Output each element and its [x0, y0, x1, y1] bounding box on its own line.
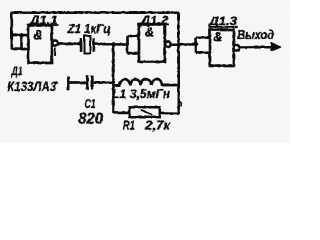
gate D1.2 (NAND element)	[139, 24, 171, 62]
wire: crystal Z1 to D1.2 input	[95, 42, 127, 45]
wire: top feedback bus from D1.2 output rail to D1.1 input rail	[11, 12, 178, 49]
node: junction dot at D1.3 input tie	[194, 42, 198, 46]
inductor L1	[113, 79, 178, 85]
capacitor C1 left terminal bar	[67, 76, 70, 90]
svg-text:2,7к: 2,7к	[144, 118, 171, 133]
resistor R1	[113, 107, 178, 117]
wire: D1.1 input tie	[20, 35, 22, 49]
wire: D1.2 output to D1.3 input	[170, 43, 195, 46]
wire: D1.1 output to crystal Z1	[58, 42, 80, 44]
wire: D1.2 input tie	[126, 36, 128, 53]
svg-text:Z1 1кГц: Z1 1кГц	[67, 21, 111, 36]
wire: C1 left lead	[68, 81, 86, 83]
wire: right rail (feedback up / tank down)	[177, 12, 179, 113]
wire: D1.2 input stubs	[127, 35, 139, 37]
paper background with scan noise	[0, 0, 290, 143]
crystal Z1	[81, 36, 94, 53]
gate D1.3 (NAND element)	[210, 30, 240, 66]
svg-text:С1: С1	[85, 97, 96, 111]
artifact squiggle at right rail near R1	[180, 102, 181, 107]
svg-text:R1: R1	[123, 118, 135, 133]
wire: D1.3 input tie	[194, 37, 196, 52]
svg-text:К133ЛА3: К133ЛА3	[7, 78, 56, 94]
wire: D1.3 input stubs	[196, 36, 210, 38]
svg-text:&: &	[213, 30, 222, 44]
wire: C1 right lead to tank rail	[93, 81, 113, 83]
svg-text:Выход: Выход	[237, 27, 274, 42]
wire: tank left rail	[112, 44, 114, 113]
node: junction dot at D1.2 input tie	[125, 42, 129, 46]
node B: junction of D1.2 output and right rail	[176, 42, 180, 46]
node A: junction of Z1 wire and tank left rail	[111, 42, 115, 46]
svg-text:&: &	[145, 25, 154, 39]
svg-text:&: &	[33, 27, 42, 42]
node: junction dot on D1.1 input tie	[19, 33, 23, 37]
artifact stub below D1.1 output circle	[54, 48, 56, 56]
svg-text:820: 820	[78, 111, 103, 128]
wire: D1.1 bottom input	[11, 47, 28, 49]
wire: D1.1 top input	[11, 33, 28, 35]
capacitor C1	[87, 75, 92, 89]
artifact blob left of C1	[56, 81, 57, 84]
svg-text:L1 3,5мГн: L1 3,5мГн	[112, 86, 170, 101]
node: junction C1 lead / tank left rail	[111, 80, 115, 84]
svg-text:Д1: Д1	[11, 65, 23, 78]
output arrow (Выход)	[239, 42, 281, 52]
gate D1.1 (NAND element, 1/4 of К133ЛА3)	[28, 25, 58, 63]
